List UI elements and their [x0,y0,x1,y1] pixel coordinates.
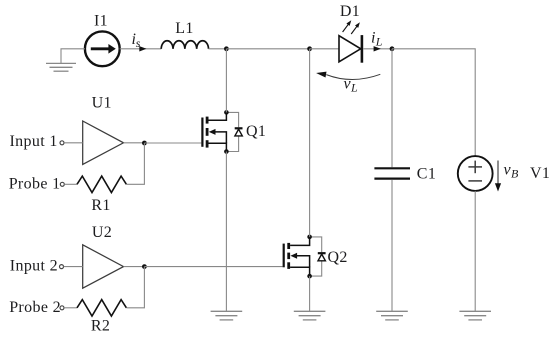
inductor L1 [161,41,208,49]
wire [474,191,476,311]
node: Q1 drain / body diode [224,110,229,115]
node: U1 output junction [142,141,147,146]
ground (C1) [376,311,408,320]
ground (V1) [459,311,491,320]
op-amp U1 [83,121,124,164]
svg-text:C1: C1 [417,166,436,183]
wire [392,49,475,156]
wire [309,49,311,237]
terminal Input 2 [60,265,64,269]
wire [124,266,145,268]
body diode Q1 [226,112,242,151]
wire [391,180,393,312]
node: U2 output junction [142,264,147,269]
svg-text:Q2: Q2 [328,249,348,266]
led D1 [339,20,362,62]
svg-text:Input 2: Input 2 [10,258,58,275]
wire [126,143,144,184]
wire [391,49,393,167]
wire [126,267,144,308]
wire [64,307,77,309]
node: Q2 drain junction [307,46,312,51]
svg-text:Q1: Q1 [246,123,266,140]
wire [226,48,309,50]
svg-text:I1: I1 [94,12,108,29]
wire [225,49,227,113]
node: Q2 drain / body diode [307,235,312,240]
wire [309,276,311,311]
resistor R1 [77,176,126,192]
current arrow i_s [139,46,146,51]
wire [225,152,227,312]
svg-text:Probe 1: Probe 1 [9,176,61,193]
svg-text:U2: U2 [92,224,112,241]
voltage arc v_L [316,72,380,80]
resistor R2 [77,300,126,316]
wire [124,142,145,144]
ground (Q2 source) [294,311,326,320]
svg-text:L1: L1 [175,20,193,37]
current arrow i_L [374,46,381,51]
svg-text:Input 1: Input 1 [10,133,58,150]
node: Q1 source / body diode [224,149,229,154]
transistor Q1 [202,112,226,151]
node: L1 / Q1 drain junction [224,46,229,51]
terminal Input 1 [60,141,64,145]
current source I1 [85,31,120,66]
ground [46,63,76,71]
svg-text:R1: R1 [91,197,110,214]
svg-text:D1: D1 [340,3,360,20]
voltage arrow v_B [495,161,501,192]
voltage source V1 [458,156,493,191]
capacitor C1 [374,168,410,178]
wire [64,142,83,144]
wire [61,49,85,63]
node: output / C1 junction [390,46,395,51]
svg-text:Probe 2: Probe 2 [9,299,61,316]
wire [120,48,162,50]
wire [209,48,227,50]
transistor Q2 [284,237,310,276]
op-amp U2 [83,245,124,288]
body diode Q2 [310,237,326,276]
node: Q2 source / body diode [307,274,312,279]
wire [363,48,392,50]
wire (Q1 gate lead) [144,142,201,144]
wire [64,266,83,268]
terminal Probe 1 [60,182,64,186]
wire [64,183,77,185]
svg-text:V1: V1 [530,165,550,182]
svg-text:U1: U1 [92,94,112,111]
wire (Q2 gate lead) [144,266,282,268]
terminal Probe 2 [60,306,64,310]
svg-text:R2: R2 [91,318,110,335]
ground (Q1 source) [211,311,243,320]
wire [310,48,339,50]
